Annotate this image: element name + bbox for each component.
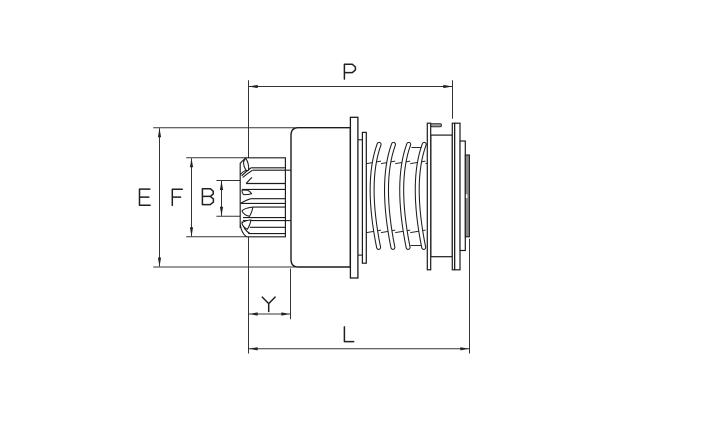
arrow B up [220, 181, 223, 190]
gear left edge [240, 158, 246, 228]
wire washer-plate connector top [358, 139, 363, 141]
gear tooth line y227 [250, 226, 286, 228]
arrow P left [249, 85, 258, 88]
tooth chamfer corner curve [240, 170, 246, 174]
tooth chamfer crescent top [244, 158, 249, 170]
wire B bottom extension line [216, 215, 241, 217]
wire P dimension line [249, 86, 453, 88]
arrow E up [158, 128, 161, 137]
collar right plate outer [455, 123, 460, 270]
tooth chamfer triangle 2 [242, 220, 251, 229]
arrow F up [190, 158, 193, 167]
coil strand 1 outline [372, 144, 379, 247]
retainer tab [431, 124, 442, 127]
gear tooth line y199 [251, 198, 286, 200]
spline notch [466, 194, 468, 198]
wire Y dimension line [249, 313, 291, 315]
arrow Y left [249, 312, 258, 315]
wire spring back coil bottom 3 [395, 230, 410, 233]
spring seat plate [362, 132, 366, 263]
spring front coils (outer dark tubes) [372, 144, 424, 247]
wire spring back coil top 3 [395, 161, 410, 164]
tooth chamfer diagonal 1b [243, 170, 253, 177]
wire L dimension line [249, 348, 470, 350]
arrow L right [460, 347, 469, 350]
wire spring closing coil bottom [411, 245, 422, 247]
wire E top extension line [153, 127, 299, 129]
coil strand 1 core [372, 144, 379, 247]
arrow L left [249, 347, 258, 350]
wire F bottom extension line [186, 236, 246, 238]
coil strand 3 outline [402, 144, 409, 247]
gear tooth line y234 [248, 233, 285, 235]
label P [344, 64, 355, 79]
wire spring closing coil top [412, 147, 422, 149]
label L [344, 327, 353, 342]
label E [140, 189, 151, 205]
gear silhouette [240, 158, 285, 237]
arrow Y right [281, 312, 290, 315]
tooth chamfer diagonal 3 [241, 199, 251, 204]
wire washer-plate connector bottom [358, 254, 363, 256]
wire L right extension line [469, 239, 471, 354]
wire F dimension line [191, 159, 193, 237]
drive body [291, 128, 350, 267]
wire B top extension line [216, 180, 241, 182]
wire spring back coil bottom 1 [367, 230, 382, 233]
tooth chamfer teardrop [242, 190, 252, 195]
collar right plate inner [452, 123, 454, 270]
arrow E down [158, 258, 161, 267]
wire P left extension line [248, 80, 250, 353]
wire B dimension line [221, 181, 223, 216]
tooth chamfer diagonal 2 [246, 177, 252, 183]
wire hub bottom [285, 220, 291, 222]
gear bottom-left chamfer [240, 225, 246, 237]
gear tooth line y189 [242, 188, 285, 190]
coil strand 2 core [386, 144, 393, 247]
label Y [262, 297, 275, 311]
coil strand 4 outline [417, 144, 424, 247]
gear tooth line y170 [253, 169, 286, 171]
gear tooth line y207 [253, 206, 286, 208]
wire spring back coil bottom 4 [410, 230, 425, 233]
wire hub top [285, 169, 291, 171]
arrow P right [443, 85, 452, 88]
washer plate [350, 117, 358, 278]
wire P right extension line [452, 80, 454, 118]
wire spring back coil top 2 [381, 161, 395, 164]
body housing [291, 128, 350, 267]
coil strand 2 outline [386, 144, 393, 247]
gear tooth line y184 [246, 183, 285, 185]
wire spring back coil bottom 2 [381, 230, 395, 233]
wire E bottom extension line [153, 266, 299, 268]
wire spring back coil top 4 [410, 161, 425, 164]
arrow B down [220, 207, 223, 216]
wire F top extension line [186, 157, 246, 159]
wire spring back coil top 5 [426, 162, 428, 164]
label B [202, 189, 213, 205]
gear outline [246, 158, 286, 237]
shaft step [460, 141, 465, 251]
spring back coil lines [367, 161, 428, 233]
hub lines between gear and body [285, 170, 291, 220]
shaft spline (gray) [465, 155, 469, 237]
arrow F down [190, 227, 193, 236]
collar body [431, 135, 452, 257]
label F [172, 189, 182, 205]
coil strand 4 core [417, 144, 424, 247]
tooth bottom chamfer inner sweep [242, 222, 250, 234]
gear chamfer wedges [240, 158, 252, 229]
tooth chamfer diagonal 1a [242, 168, 251, 176]
gear tooth line y168 [251, 167, 285, 169]
gear tooth line y221 [243, 220, 286, 222]
collar left plate [427, 123, 430, 270]
tooth chamfer triangle 1 [242, 207, 253, 216]
coil strand 3 core [402, 144, 409, 247]
wire E dimension line [159, 128, 161, 266]
gear tooth line y218 [243, 217, 285, 219]
gear tooth line y203 [241, 202, 286, 204]
wire spring back coil top 1 [367, 161, 382, 164]
wire Y right extension line [290, 269, 292, 320]
